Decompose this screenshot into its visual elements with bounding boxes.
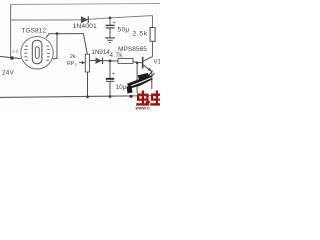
node junction at top rail (109, 17, 112, 20)
diode D1 1N4001 (73, 16, 98, 30)
potentiometer RP1 2k (67, 54, 90, 97)
node on rail below logo (130, 95, 133, 98)
capacitor C2 10u (106, 61, 127, 97)
svg-text:1N4001: 1N4001 (73, 23, 98, 30)
svg-text:10μ: 10μ (116, 84, 127, 91)
wire base node down (136, 63, 138, 93)
wire corner down to potentiometer (84, 34, 88, 55)
svg-text:1: 1 (75, 62, 78, 67)
svg-text:www.c: www.c (135, 106, 151, 111)
wire sensor right pin riser (53, 34, 57, 59)
svg-text:RP: RP (67, 61, 75, 67)
svg-text:TGS812: TGS812 (22, 28, 47, 35)
svg-text:24V: 24V (2, 70, 14, 77)
svg-text:1-2: 1-2 (13, 50, 19, 54)
watermark red characters (136, 91, 160, 106)
svg-text:4.7k: 4.7k (110, 52, 124, 59)
frame top border (11, 4, 161, 5)
diode D2 1N914 (88, 49, 110, 64)
top supply rail wire (11, 16, 153, 20)
gas sensor TGS812 (13, 28, 54, 70)
node 24V junction (10, 56, 14, 60)
frame left border / left wire (10, 5, 12, 59)
svg-text:2k: 2k (70, 54, 76, 60)
wire electrode top run (46, 34, 84, 38)
wire right rail corner down (152, 16, 154, 28)
ground symbol (105, 28, 115, 42)
svg-text:+: + (112, 72, 115, 78)
transistor V1 MPS8565 (118, 46, 162, 89)
svg-text:2.5k: 2.5k (133, 31, 148, 38)
watermark beetle logo (127, 71, 155, 94)
resistor R2 4.7k (110, 52, 138, 63)
wire resistor to collector (152, 41, 154, 56)
node junction diode-cap-resistor (109, 60, 112, 63)
svg-text:1N914: 1N914 (92, 49, 111, 56)
svg-text:V1: V1 (154, 60, 161, 66)
svg-text:50μ: 50μ (118, 27, 130, 34)
node cap to rail (109, 95, 112, 98)
bottom ground rail (0, 96, 160, 98)
node junction sensor top (56, 32, 59, 35)
resistor R1 2.5k (133, 28, 156, 42)
node pot to rail (86, 95, 89, 98)
capacitor C1 50u (106, 18, 130, 34)
base wire and node (137, 62, 142, 64)
svg-text:+: + (113, 20, 116, 26)
wire 24V input to sensor (0, 56, 21, 58)
